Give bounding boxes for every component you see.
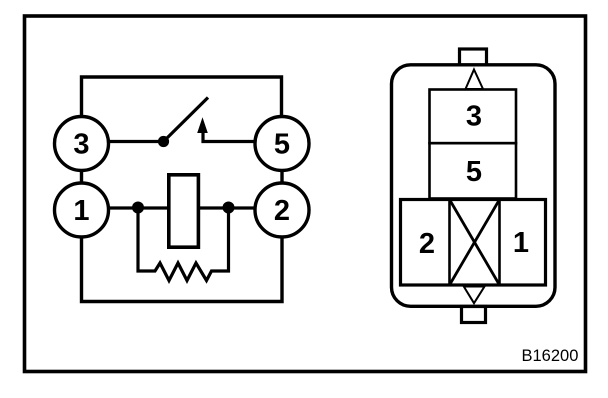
terminal 1: [55, 183, 109, 237]
keyway arrow top: [466, 70, 484, 90]
terminal 5: [255, 117, 309, 171]
figure number B16200: [522, 347, 579, 365]
wire switch contact to terminal 5: [203, 132, 255, 142]
pin 3 cavity: [430, 90, 517, 144]
node right junction: [223, 202, 235, 214]
connector body: [392, 65, 556, 306]
svg-text:5: 5: [274, 129, 290, 161]
wire terminal 3 to switch pivot: [109, 140, 164, 143]
node left junction: [132, 202, 144, 214]
resistor branch with zigzag: [138, 210, 229, 281]
svg-text:1: 1: [73, 195, 89, 227]
wire terminal 1 to coil: [109, 206, 169, 209]
terminal 3: [55, 117, 109, 171]
svg-text:3: 3: [73, 129, 89, 161]
svg-text:2: 2: [274, 195, 290, 227]
terminal 2: [255, 183, 309, 237]
lower cavity block: [401, 200, 546, 286]
switch contact arrow: [197, 117, 208, 133]
wire coil to terminal 2: [199, 206, 256, 209]
keyway arrow bottom: [464, 287, 485, 304]
switch blade: [164, 98, 209, 142]
wire between terminal 5 and terminal 2: [280, 171, 283, 184]
svg-text:3: 3: [466, 101, 482, 133]
svg-text:5: 5: [466, 156, 482, 188]
relay coil: [169, 175, 199, 247]
wire bottom loop from terminal 1 to terminal 2: [82, 237, 283, 302]
pin 2 cavity: [419, 200, 450, 286]
blocked cavity X mark: [450, 200, 500, 286]
connector bottom tab: [462, 307, 486, 323]
connector top tab: [460, 49, 487, 65]
svg-text:2: 2: [419, 228, 435, 260]
svg-text:B16200: B16200: [522, 347, 579, 365]
wire between terminal 3 and terminal 1: [80, 171, 83, 184]
pin 1 cavity: [500, 200, 530, 286]
svg-text:1: 1: [513, 227, 529, 259]
wire top loop from terminal 3 to terminal 5: [82, 77, 282, 116]
pin 5 cavity: [430, 143, 517, 198]
switch pivot junction: [158, 136, 169, 147]
